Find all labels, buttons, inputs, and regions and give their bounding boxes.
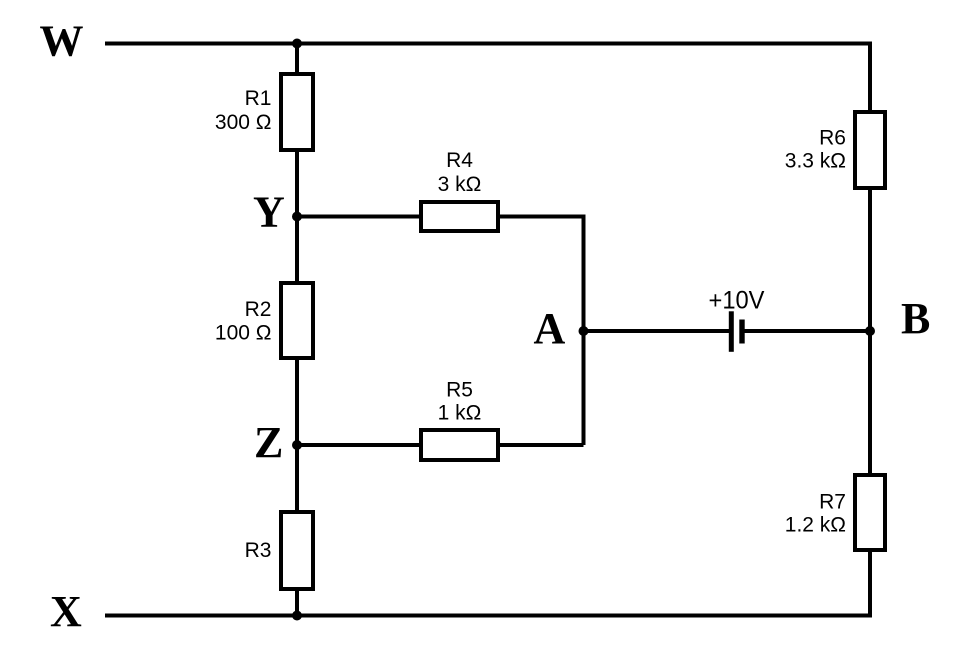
svg-text:R7: R7: [819, 491, 846, 514]
svg-text:W: W: [40, 16, 84, 65]
svg-text:1 kΩ: 1 kΩ: [438, 401, 482, 424]
svg-text:R4: R4: [446, 149, 473, 172]
svg-text:A: A: [534, 304, 566, 353]
svg-text:R1: R1: [245, 87, 272, 110]
svg-text:+10V: +10V: [709, 287, 765, 315]
svg-text:R3: R3: [245, 539, 272, 562]
svg-text:X: X: [50, 587, 82, 636]
svg-text:100 Ω: 100 Ω: [215, 322, 272, 345]
svg-text:R5: R5: [446, 378, 473, 401]
svg-text:3.3 kΩ: 3.3 kΩ: [785, 150, 846, 173]
svg-text:R2: R2: [245, 298, 272, 321]
svg-text:300 Ω: 300 Ω: [215, 111, 272, 134]
svg-text:B: B: [901, 294, 930, 343]
svg-text:Y: Y: [253, 188, 285, 237]
svg-text:3 kΩ: 3 kΩ: [438, 173, 482, 196]
svg-text:1.2 kΩ: 1.2 kΩ: [785, 514, 846, 537]
svg-text:Z: Z: [254, 418, 283, 467]
svg-text:R6: R6: [819, 127, 846, 150]
